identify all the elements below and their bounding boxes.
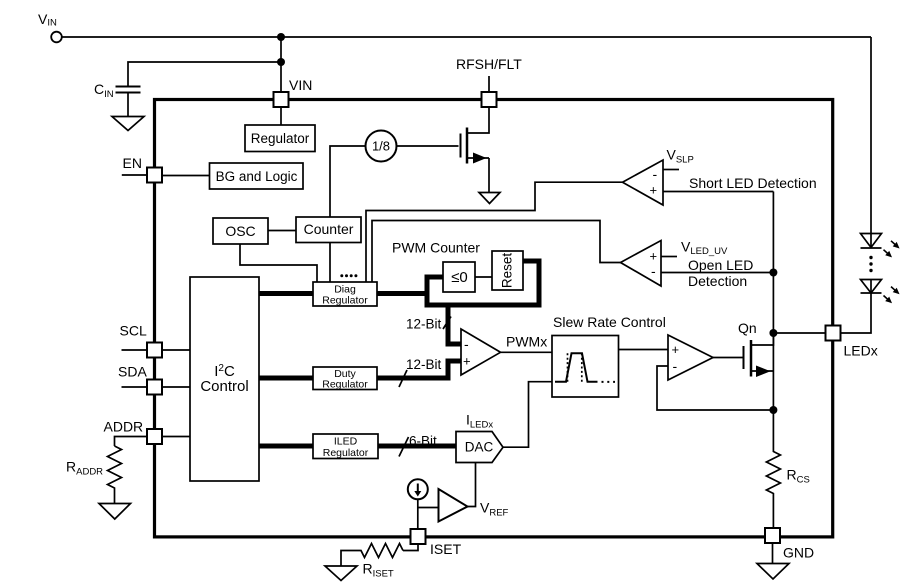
svg-text:6-Bit: 6-Bit xyxy=(409,434,437,449)
svg-text:RFSH/FLT: RFSH/FLT xyxy=(456,56,522,72)
wire opamp to gate xyxy=(713,357,744,359)
junction node CIN xyxy=(277,58,285,66)
wire EN stub xyxy=(122,174,147,176)
block OSC xyxy=(213,218,268,244)
svg-text:Slew Rate Control: Slew Rate Control xyxy=(553,314,666,330)
svg-text:BG and Logic: BG and Logic xyxy=(216,169,298,184)
svg-text:Regulator: Regulator xyxy=(323,447,369,459)
wire LED string vertical xyxy=(870,37,872,234)
wire source to ISET pin xyxy=(417,499,419,529)
wire CIN branch xyxy=(128,62,281,87)
wire LED string to LEDx pin xyxy=(841,293,871,333)
transistor RFSH FET xyxy=(461,107,490,193)
LED D2 xyxy=(861,280,882,294)
ground RADDR xyxy=(99,504,131,520)
svg-text:-: - xyxy=(651,263,656,279)
svg-text:-: - xyxy=(653,166,658,182)
wire I2C to ILED bus xyxy=(259,444,313,449)
block BG and Logic xyxy=(210,163,304,189)
wire VIN top rail xyxy=(61,36,871,38)
svg-text:ILED: ILED xyxy=(334,436,358,448)
wire ISET pin to resistor xyxy=(403,544,418,551)
svg-text:Qn: Qn xyxy=(738,320,757,336)
wire I2C to Duty bus xyxy=(259,376,313,381)
divider 1/8 circle xyxy=(366,131,397,162)
svg-text:Reset: Reset xyxy=(500,253,515,289)
junction node Qn drain xyxy=(769,329,777,337)
svg-text:12-Bit: 12-Bit xyxy=(406,317,442,332)
wire EN to BG xyxy=(162,175,210,177)
wire I2C SDA stub xyxy=(122,386,148,388)
resistor RCS xyxy=(766,410,780,529)
svg-text:Regulator: Regulator xyxy=(322,378,368,390)
icon slew waveform solid xyxy=(555,353,598,381)
LED string dots xyxy=(869,256,872,272)
wire le0 to Reset xyxy=(475,276,492,278)
block I2C Control xyxy=(190,277,259,481)
svg-text:SDA: SDA xyxy=(118,364,147,380)
dots above Diag xyxy=(340,274,357,277)
wire OSC to Diag xyxy=(240,244,317,282)
op-amp PWM comparator xyxy=(461,329,501,375)
svg-text:LEDx: LEDx xyxy=(844,343,878,359)
svg-text:≤0: ≤0 xyxy=(451,269,468,286)
wire CIN to ground xyxy=(127,93,129,117)
pin RFSH/FLT xyxy=(482,92,497,107)
svg-text:PWM Counter: PWM Counter xyxy=(392,240,480,256)
op-amp open LED comparator xyxy=(621,241,662,287)
op-amp VREF buffer xyxy=(439,489,468,522)
svg-text:Regulator: Regulator xyxy=(322,295,368,307)
wire ILED to DAC bus xyxy=(378,444,456,449)
pin ISET xyxy=(411,529,426,544)
block Counter xyxy=(296,217,361,243)
svg-text:1/8: 1/8 xyxy=(372,139,390,154)
wire ADDR to I2C xyxy=(162,436,190,438)
block Diag Regulator xyxy=(313,282,377,306)
wire ADDR stub xyxy=(115,437,148,447)
wire DAC to VREF xyxy=(468,463,476,507)
wire short comp plus input xyxy=(663,191,773,193)
svg-text:Detection: Detection xyxy=(688,273,747,289)
icon slew dots xyxy=(602,381,616,383)
svg-text:DAC: DAC xyxy=(465,440,494,455)
svg-text:-: - xyxy=(464,336,469,352)
junction node VIN rail xyxy=(277,33,285,41)
svg-text:GND: GND xyxy=(783,545,814,561)
svg-text:+: + xyxy=(672,342,680,357)
wire I2C SCL stub xyxy=(122,349,148,351)
LED D1 arrows xyxy=(881,239,901,260)
svg-text:PWMx: PWMx xyxy=(506,334,547,350)
wire open comp minus input xyxy=(661,272,773,274)
wire sense vertical xyxy=(772,192,774,411)
ground RISET xyxy=(325,566,357,581)
block Duty Regulator xyxy=(313,367,377,390)
ground GND xyxy=(757,564,789,580)
svg-text:Regulator: Regulator xyxy=(251,131,310,146)
bus slash 12bit bottom xyxy=(399,370,407,387)
wire OSC to Counter xyxy=(268,230,296,232)
svg-text:Control: Control xyxy=(200,378,248,395)
wire divider to gate xyxy=(397,145,459,147)
wire PWMx xyxy=(501,351,553,353)
svg-text:Open LED: Open LED xyxy=(688,257,753,273)
svg-text:VIN: VIN xyxy=(289,77,312,93)
block Slew Rate Control xyxy=(552,336,619,398)
wire 12bit bus to comparator minus xyxy=(448,305,461,344)
wire slew to opamp xyxy=(619,349,669,351)
block ILED Regulator xyxy=(313,434,378,459)
wire VIN pin to Regulator xyxy=(280,107,282,125)
junction node open LED sense xyxy=(769,269,777,277)
ground CIN xyxy=(112,117,144,131)
wire VIN drop to pin xyxy=(280,37,282,93)
resistor RISET xyxy=(341,544,403,567)
svg-text:Short LED Detection: Short LED Detection xyxy=(689,175,817,191)
op-amp short LED comparator xyxy=(623,160,664,205)
svg-text:ISET: ISET xyxy=(430,541,462,557)
pin VIN xyxy=(274,92,289,107)
wire drain to LEDx pin xyxy=(773,332,826,334)
svg-text:OSC: OSC xyxy=(225,223,255,239)
wire SDA to I2C xyxy=(162,386,190,388)
svg-text:+: + xyxy=(463,354,471,369)
wire DAC to slew xyxy=(503,382,552,448)
svg-text:ADDR: ADDR xyxy=(104,419,144,435)
terminal VIN circle xyxy=(51,32,62,43)
op-amp gate driver xyxy=(668,335,713,380)
resistor RADDR xyxy=(108,446,122,504)
regulator box xyxy=(245,125,315,152)
bus slash 6bit xyxy=(399,437,409,457)
svg-text:12-Bit: 12-Bit xyxy=(406,357,442,372)
pin GND xyxy=(765,528,780,543)
wire PWM counter loop xyxy=(427,261,539,305)
current source ISET xyxy=(408,479,428,499)
block PWM counter le0 xyxy=(443,262,475,292)
wire feedback Qn source to opamp minus xyxy=(657,366,773,410)
pin LEDx xyxy=(826,326,841,341)
wire SCL to I2C xyxy=(162,349,190,351)
wire Counter to divider xyxy=(330,146,366,217)
wire Counter to Diag xyxy=(329,243,331,283)
block PWM counter Reset xyxy=(492,251,523,290)
wire Duty to comparator plus bus xyxy=(377,361,461,378)
LED D1 xyxy=(861,234,882,249)
capacitor CIN xyxy=(116,87,141,93)
pin EN xyxy=(147,168,162,183)
svg-text:EN: EN xyxy=(123,155,142,171)
wire source to buffer xyxy=(418,507,439,509)
svg-text:+: + xyxy=(650,183,658,198)
chip outline xyxy=(155,100,833,537)
svg-text:+: + xyxy=(650,249,658,264)
pin SDA xyxy=(147,380,162,395)
wire GND pin to ground xyxy=(772,544,774,564)
icon slew waveform dashed ideal edges xyxy=(568,353,582,381)
wire I2C to Diag bus xyxy=(259,291,313,296)
block DAC xyxy=(456,432,503,463)
wire short-det output to Diag xyxy=(366,182,623,282)
wire Diag to loop bus xyxy=(377,291,430,296)
svg-text:-: - xyxy=(673,358,678,374)
pin SCL xyxy=(147,343,162,358)
transistor Qn xyxy=(744,333,774,377)
wire RFSH pin top stub xyxy=(488,76,490,92)
bus slash 12bit top xyxy=(443,317,451,330)
wire open-det output to Diag xyxy=(372,221,621,283)
wire VLED_UV stub xyxy=(661,256,677,258)
wire VSLP stub xyxy=(663,169,679,171)
svg-text:SCL: SCL xyxy=(120,323,147,339)
pin ADDR xyxy=(147,429,162,444)
LED D2 arrows xyxy=(881,284,901,305)
svg-text:Counter: Counter xyxy=(304,221,354,237)
ground RFSH FET xyxy=(479,193,500,204)
junction node Qn source xyxy=(769,406,777,414)
